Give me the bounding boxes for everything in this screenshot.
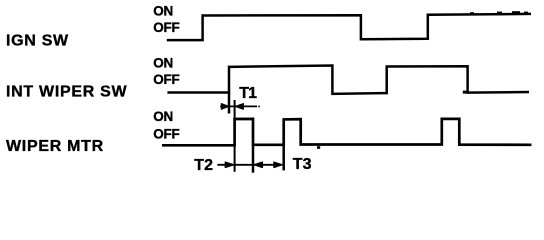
svg-text:T2: T2 xyxy=(194,157,213,174)
wire: WIPER MTR waveform xyxy=(162,119,532,146)
dimension T2/T3 arrow line xyxy=(217,164,281,166)
svg-text:OFF: OFF xyxy=(153,126,179,141)
dimension T3 right arrowhead (points right at pulse2 rising edge) xyxy=(274,162,282,167)
wire: INT WIPER SW waveform xyxy=(167,66,529,94)
extension line: WIPER MTR pulse1 falling edge down (T2 right / T3 left) xyxy=(252,145,255,173)
dimension T1 arrow line xyxy=(220,105,257,107)
extension line: WIPER MTR pulse1 rising edge up (T1 right) xyxy=(234,100,236,119)
wire: IGN SW waveform xyxy=(167,14,531,40)
svg-text:WIPER MTR: WIPER MTR xyxy=(6,138,104,155)
dimension T1 left arrowhead (points right at INT rising edge) xyxy=(221,104,228,109)
svg-text:IGN SW: IGN SW xyxy=(6,33,69,50)
svg-text:ON: ON xyxy=(153,3,173,18)
scan speckle below WIPER MTR baseline xyxy=(317,146,320,149)
scan speckles above IGN SW right top line xyxy=(497,12,502,14)
extension line: WIPER MTR pulse2 rising edge down (T3 right) xyxy=(282,145,285,171)
scan blob at INT WIPER SW pulse2 fall corner xyxy=(463,91,469,94)
svg-text:ON: ON xyxy=(153,56,173,71)
dimension T2 left arrowhead (points right at pulse1 rising edge) xyxy=(225,162,233,167)
speckle dot right of T1 arrow xyxy=(258,106,260,108)
svg-text:T1: T1 xyxy=(239,85,257,102)
dimension T1 right arrowhead (points left at WIPER MTR rising edge) xyxy=(236,104,244,109)
svg-text:INT WIPER SW: INT WIPER SW xyxy=(6,84,127,101)
extension line: WIPER MTR pulse1 rising edge down (T2 left) xyxy=(234,145,236,172)
svg-text:OFF: OFF xyxy=(153,20,179,35)
svg-text:T3: T3 xyxy=(293,156,312,173)
extension line from INT WIPER SW rising edge down (T1 left) xyxy=(228,93,231,114)
dimension T2 right / T3 left arrowhead (points left at pulse1 falling edge) xyxy=(254,162,262,167)
svg-text:ON: ON xyxy=(153,109,173,124)
svg-text:OFF: OFF xyxy=(153,72,179,87)
